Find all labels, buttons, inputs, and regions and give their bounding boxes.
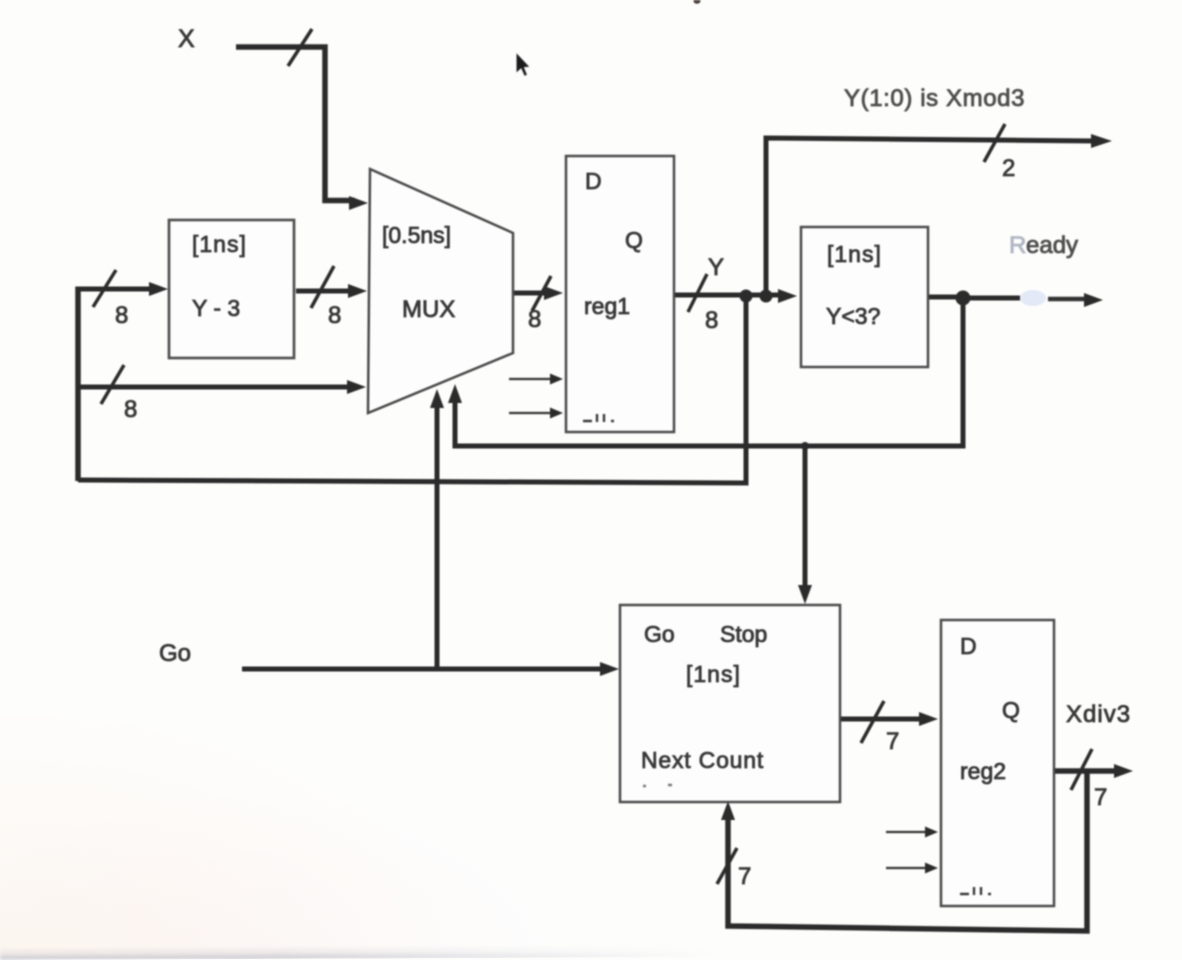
wire Ready feedback: down, left, up into MUX select xyxy=(455,297,963,446)
svg-text:Xdiv3: Xdiv3 xyxy=(1066,701,1131,728)
wire Go input xyxy=(242,667,606,672)
register reg1 xyxy=(566,156,674,432)
wire MUX to reg1 xyxy=(513,291,550,296)
svg-text:7: 7 xyxy=(1094,784,1107,811)
svg-text:Stop: Stop xyxy=(720,621,767,647)
junction on Y net (left dot) xyxy=(740,290,753,303)
block comparator Y<3? [1ns] xyxy=(801,227,928,367)
wire into Y-3 block xyxy=(76,287,156,292)
bus-width tick 7 (Xdiv3) xyxy=(1071,749,1092,790)
clock mark reg1 xyxy=(583,414,614,422)
svg-text:7: 7 xyxy=(886,728,899,755)
bus-width tick 8 (MUX input 2) xyxy=(101,365,124,404)
mux U-MUX [0.5ns] xyxy=(368,169,513,413)
wire Y<3 input xyxy=(928,295,960,300)
register reg2 xyxy=(941,620,1054,906)
svg-text:8: 8 xyxy=(115,302,128,329)
svg-text:Y<3?: Y<3? xyxy=(826,303,880,329)
svg-text:8: 8 xyxy=(328,302,341,329)
svg-text:Y - 3: Y - 3 xyxy=(192,295,240,321)
wire Y feedback: down and left to bus xyxy=(78,296,746,483)
junction Stop branch on Ready feedback xyxy=(801,442,809,450)
svg-text:Next Count: Next Count xyxy=(641,747,764,773)
wire Xdiv3 feedback: down, left, up into Next Count xyxy=(728,773,1087,931)
mouse cursor xyxy=(516,52,530,77)
svg-text:[1ns]: [1ns] xyxy=(686,661,741,687)
svg-text:D: D xyxy=(585,168,602,194)
svg-text:8: 8 xyxy=(124,396,137,423)
bus-width tick on X wire xyxy=(288,29,312,66)
faint dots below Next Count xyxy=(643,785,672,786)
svg-text:Q: Q xyxy=(1002,697,1020,723)
svg-text:reg2: reg2 xyxy=(960,758,1006,784)
svg-text:R: R xyxy=(1009,232,1026,259)
svg-text:[0.5ns]: [0.5ns] xyxy=(382,222,451,248)
bus-width tick 8 (Y-3 to MUX) xyxy=(311,266,334,308)
bus-width tick 7 (to reg2) xyxy=(861,701,884,743)
clock input arrows reg1 xyxy=(509,378,551,380)
speck at top edge xyxy=(694,0,701,4)
bus-width tick 2 xyxy=(984,124,1005,162)
bus-width tick 8 (into Y-3) xyxy=(93,270,116,307)
svg-text:Y(1:0) is Xmod3: Y(1:0) is Xmod3 xyxy=(844,85,1025,112)
svg-text:[1ns]: [1ns] xyxy=(827,241,882,267)
clock input arrows reg2 xyxy=(886,831,926,833)
svg-text:X: X xyxy=(178,25,195,53)
wire Next Count to reg2 xyxy=(840,717,925,722)
svg-text:MUX: MUX xyxy=(402,296,455,323)
svg-text:Q: Q xyxy=(625,227,643,253)
junction on Y net (right dot) xyxy=(760,290,773,303)
svg-text:[1ns]: [1ns] xyxy=(192,231,247,257)
svg-text:Go: Go xyxy=(159,640,191,667)
bus-width tick 7 (feedback) xyxy=(717,848,737,884)
junction Ready node dot xyxy=(956,291,971,306)
wire X input: right then down into MUX xyxy=(236,47,355,201)
svg-text:reg1: reg1 xyxy=(584,293,630,319)
block Next Count controller [1ns] xyxy=(620,605,840,802)
svg-text:Go: Go xyxy=(644,621,675,647)
svg-text:D: D xyxy=(960,633,977,659)
svg-text:eady: eady xyxy=(1026,232,1078,259)
wire Y(1:0) output to top right xyxy=(766,138,1097,296)
svg-text:7: 7 xyxy=(738,863,751,890)
wire Go branch up into MUX select xyxy=(435,403,440,669)
svg-text:8: 8 xyxy=(705,307,718,334)
svg-text:8: 8 xyxy=(528,306,541,333)
wire Ready output (broken by glare) xyxy=(969,296,1020,301)
svg-text:2: 2 xyxy=(1002,155,1015,182)
svg-text:Y: Y xyxy=(708,254,724,281)
wire left feedback bus (vertical) xyxy=(75,287,81,482)
block Y-3 [1ns] xyxy=(169,220,294,358)
wire reg2 output Xdiv3 xyxy=(1054,768,1118,774)
wire Stop branch down to Next Count xyxy=(803,446,808,593)
clock mark reg2 xyxy=(960,887,991,895)
bus-width tick 8 (reg1 output) xyxy=(688,274,707,312)
wire reg1 output Y xyxy=(674,293,785,298)
bus-width tick 8 (MUX to reg1) xyxy=(532,276,551,311)
wire Y-3 to MUX xyxy=(296,289,354,294)
wire second MUX input xyxy=(76,385,353,390)
